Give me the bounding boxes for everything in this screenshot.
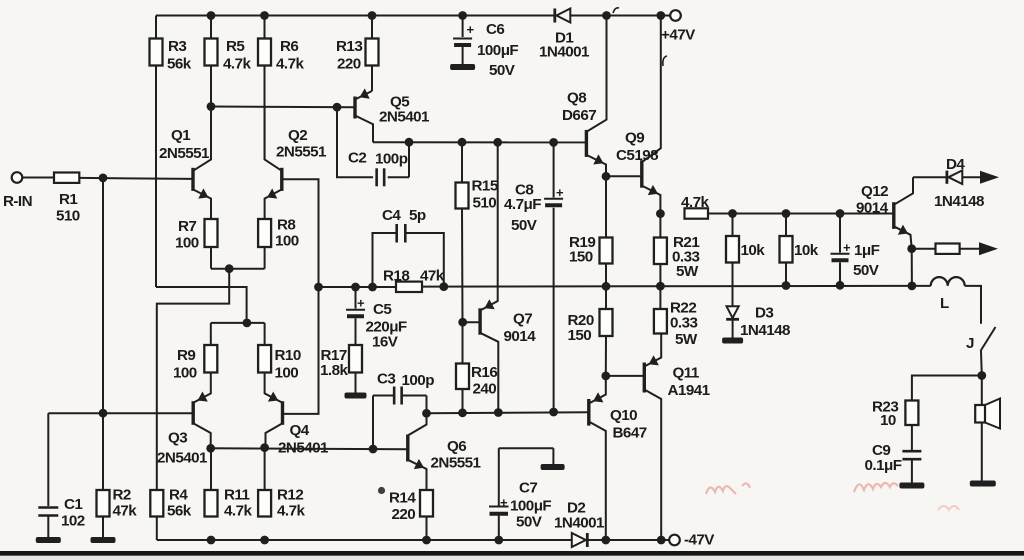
junction Q7 base node [458,318,467,327]
wire Q11 base [606,375,645,377]
transistor Q2 2N5551 [265,107,327,220]
capacitor C9 0.1uF [865,442,922,483]
junction top rail R5 [207,11,216,20]
pink scribble left [706,483,750,494]
wire Q5 collector line to Q8 base [373,141,586,143]
svg-text:1N4148: 1N4148 [740,322,790,339]
wire speaker node to R23 [912,376,982,401]
svg-text:150: 150 [569,249,593,266]
junction C3 right / Q6 collector on driver line [422,409,431,418]
junction Q10 emitter / Q11 base [601,372,610,381]
terminal -47V [669,532,715,549]
arrow out line [979,242,998,255]
wire L to switch [965,286,981,324]
svg-text:4.7μF: 4.7μF [504,196,541,213]
wire R9 R10 top bracket [211,323,265,345]
svg-text:47k: 47k [113,503,138,520]
terminal +47V [661,10,696,43]
junction Q3 collector R11 [206,444,215,453]
resistor R2 [97,413,138,537]
wire switch to speaker node [980,351,983,376]
svg-text:56k: 56k [167,503,192,520]
resistor 4.7k bias feed [681,194,709,219]
wire speaker node down [981,376,983,407]
resistor 10k second [780,214,819,286]
svg-text:Q12: Q12 [861,183,888,200]
junction top rail C6 [458,11,467,20]
svg-text:0.1μF: 0.1μF [865,457,902,474]
stray mark r [613,8,619,13]
ground under C6 [450,64,475,70]
svg-text:Q4: Q4 [290,422,310,439]
resistor R6 [258,16,304,160]
svg-text:Q9: Q9 [625,130,644,147]
junction C2 right on VAS line [405,138,414,147]
svg-text:4.7k: 4.7k [276,56,304,73]
svg-text:R12: R12 [277,487,303,504]
ground for C7 [541,464,565,470]
junction Q9 emitter node [656,209,665,218]
svg-text:50V: 50V [853,262,880,279]
svg-text:100: 100 [175,235,199,252]
scan edge band bottom [0,551,1024,556]
junction speaker node [977,371,986,380]
transistor Q1 2N5551 [159,107,211,220]
wire Q4 base to feedback node [283,287,319,414]
diode D2 1N4001 [554,500,605,548]
resistor R20 [568,286,613,376]
svg-text:C5198: C5198 [616,147,658,164]
junction C8 bottom [549,408,558,417]
svg-text:C7: C7 [519,480,537,497]
transistor Q11 A1941 [644,334,710,541]
wire feedback line right of R18 [422,285,912,288]
junction top rail R6 [260,11,269,20]
svg-text:Q6: Q6 [447,438,466,455]
wire Q7 base [463,321,480,323]
svg-text:Q3: Q3 [168,430,187,447]
resistor R15 [456,142,499,322]
inductor L [931,277,965,312]
capacitor C7 100uF [489,448,553,540]
transistor Q9 C5198 [616,16,661,214]
svg-text:C5: C5 [373,301,392,318]
svg-text:D667: D667 [562,107,596,124]
svg-text:R7: R7 [178,218,196,235]
svg-text:510: 510 [56,208,80,225]
ground under C1 [36,537,61,543]
svg-text:D4: D4 [946,156,965,173]
junction 10k second bottom [782,281,791,290]
junction Q8 emitter node [602,172,611,181]
junction R18 right / C4 right [439,282,448,291]
junction output rail Q12 [908,282,917,291]
svg-text:Q10: Q10 [610,407,637,424]
svg-text:R3: R3 [168,38,186,55]
svg-text:1μF: 1μF [854,242,880,259]
junction R21 bottom on output rail [656,282,665,291]
wire driver line to Q10 base [427,412,589,413]
junction upper pair tail [225,264,234,273]
svg-text:Q11: Q11 [673,365,700,382]
junction bottom rail Q11 collector [657,536,666,545]
svg-text:240: 240 [473,381,497,398]
svg-text:J: J [966,335,974,352]
svg-text:R6: R6 [280,38,298,55]
diode D3 1N4148 [726,305,790,340]
svg-text:R15: R15 [472,178,499,195]
svg-text:100μF: 100μF [477,42,518,59]
resistor R8 [258,217,299,250]
transistor Q7 9014 [480,142,536,412]
svg-text:50V: 50V [489,62,516,79]
resistor R4 [150,487,191,541]
wire input node down to Q3 base line [102,178,104,413]
svg-text:510: 510 [473,195,497,212]
arrow out D4 [980,171,999,184]
svg-text:R-IN: R-IN [3,193,32,210]
wire R3 to lower tail bracket [156,287,247,323]
resistor R17 [320,345,362,393]
svg-text:R14: R14 [389,490,416,507]
resistor R9 [173,345,217,382]
svg-text:4.7k: 4.7k [223,56,251,73]
svg-text:220: 220 [392,506,416,523]
pink scribble right [854,483,898,492]
svg-text:+: + [843,240,851,255]
svg-text:100μF: 100μF [510,498,551,515]
capacitor C6 [453,16,518,80]
svg-text:1N4001: 1N4001 [539,44,590,61]
junction R16 bottom [458,408,467,417]
capacitor C8 4.7uF [504,142,564,412]
svg-text:R16: R16 [471,364,497,381]
svg-text:0.33: 0.33 [670,315,697,332]
pink mark speaker [938,506,959,510]
diode D1 1N4001 [539,9,590,61]
svg-text:2N5401: 2N5401 [157,450,208,467]
svg-text:220: 220 [337,56,361,73]
svg-text:R5: R5 [226,38,245,55]
wire tail to R4 column [157,269,229,490]
svg-text:1N4001: 1N4001 [554,515,605,532]
svg-text:9014: 9014 [504,328,537,345]
wire speaker to ground [981,423,983,481]
svg-text:+: + [556,185,564,200]
junction bottom rail R14 [422,536,431,545]
svg-text:R8: R8 [277,217,295,234]
svg-text:10k: 10k [741,242,766,259]
resistor R12 [258,448,305,520]
ground under speaker [970,481,996,487]
capacitor C3 100p [373,371,434,450]
svg-text:+: + [500,495,508,510]
svg-text:R9: R9 [177,347,195,364]
junction C3 left on Q6 base line [369,445,378,454]
svg-text:R2: R2 [113,487,131,504]
resistor output series [912,244,979,254]
ground under R17 [345,393,367,399]
capacitor 1uF 50V [831,214,880,286]
svg-text:2N5551: 2N5551 [431,455,482,472]
svg-text:100p: 100p [375,151,408,168]
junction top rail Q9 collector [656,11,665,20]
junction lower pair tail [243,319,252,328]
svg-text:4.7k: 4.7k [224,503,252,520]
resistor 10k first [726,214,765,307]
transistor Q12 9014 [856,177,913,249]
svg-text:+: + [357,296,365,311]
diode D4 1N4148 [913,156,984,210]
capacitor C1 102 [38,413,84,537]
capacitor C2 100p [337,107,409,186]
svg-text:100: 100 [275,233,299,250]
svg-text:C6: C6 [486,21,504,38]
svg-text:5W: 5W [675,331,698,348]
resistor R10 [258,345,301,382]
wire Q2 base to feedback node [282,179,319,287]
junction bias line 1uF [836,209,845,218]
resistor R13 [336,16,379,92]
svg-text:C3: C3 [377,371,395,388]
svg-text:50V: 50V [511,217,538,234]
transistor Q5 2N5401 [355,66,430,142]
junction top rail R13 [368,11,377,20]
wire feedback line left of R18 [319,286,397,288]
resistor R21 [654,214,700,287]
svg-text:R13: R13 [336,38,362,55]
svg-text:A1941: A1941 [668,382,711,399]
wire bottom -47V rail left section [157,539,572,541]
svg-text:+: + [467,22,475,37]
svg-text:Q8: Q8 [567,90,586,107]
junction bottom rail Q10 collector [601,536,610,545]
svg-text:B647: B647 [613,425,647,442]
junction input node [99,174,108,183]
wire Q3 base line C1 R2 [48,412,193,414]
svg-text:R1: R1 [59,191,78,208]
svg-text:-47V: -47V [684,532,715,549]
ground under R2 [91,537,116,543]
junction 1uF bottom [836,281,845,290]
svg-text:C2: C2 [348,150,366,167]
wire Q12 emitter to output rail [911,249,913,286]
resistor R11 [205,448,253,519]
svg-text:R11: R11 [224,487,250,504]
svg-text:102: 102 [61,513,85,530]
svg-text:4.7k: 4.7k [277,503,305,520]
svg-text:2N5401: 2N5401 [379,109,430,126]
svg-text:R18: R18 [383,268,409,285]
transistor Q10 B647 [589,376,647,540]
junction Q2/Q4 bases on feedback line [314,283,323,292]
transistor Q3 2N5401 [157,373,211,467]
junction Q3 base node [99,409,108,418]
svg-text:10k: 10k [794,242,819,259]
svg-text:9014: 9014 [856,200,889,217]
resistor R1 [54,173,80,225]
wire output rail to L [912,285,931,287]
svg-text:C4: C4 [382,207,401,224]
junction R19 bottom on output rail [602,282,611,291]
junction R15 top [458,138,467,147]
resistor R23 [872,399,918,451]
junction R18 left / C4 left [368,283,377,292]
svg-text:R10: R10 [275,347,301,364]
svg-text:D3: D3 [755,305,773,322]
junction C5 top [351,283,360,292]
svg-text:Q1: Q1 [171,127,191,144]
svg-text:Q2: Q2 [288,127,307,144]
svg-text:100p: 100p [402,372,435,389]
svg-text:C1: C1 [64,496,83,513]
svg-text:2N5551: 2N5551 [159,145,210,162]
svg-text:Q7: Q7 [513,311,532,328]
resistor R19 [569,176,613,286]
junction Q7 emitter bottom [494,408,503,417]
svg-text:R4: R4 [169,487,188,504]
junction Q1 collector / R5 / Q5 base line [207,102,216,111]
switch J blade [966,327,996,352]
junction Q12 emitter tap [907,244,916,253]
svg-text:1.8k: 1.8k [320,362,348,379]
svg-text:150: 150 [568,327,592,344]
capacitor C4 5p [373,207,444,287]
mark bullet near R14 [378,487,385,494]
wire Q8 emitter to Q9 base [606,175,642,177]
wire top +47V rail left section [156,15,554,17]
wire R7 R8 tail bracket [211,247,265,269]
svg-text:1N4148: 1N4148 [934,193,984,210]
wire R1 to Q1 base [79,178,193,179]
capacitor C5 220uF [346,287,407,350]
stray mark f [663,56,667,66]
junction bias line 10k first [728,209,737,218]
svg-text:4.7k: 4.7k [681,194,709,211]
resistor R16 [456,322,497,412]
svg-text:56k: 56k [167,56,192,73]
svg-text:5W: 5W [676,263,699,280]
ground under D3 [722,338,743,344]
junction bias line 10k second [782,209,791,218]
svg-text:16V: 16V [372,333,399,350]
wire Q5 base line [211,106,355,109]
svg-text:L: L [940,295,949,312]
junction bottom rail R12 [260,536,269,545]
junction bottom rail C7 [494,536,503,545]
resistor R7 [175,218,218,252]
resistor R3 [150,16,192,73]
resistor R18 47k [383,268,445,293]
wire bottom rail right section after D2 [589,539,669,541]
junction Q4 collector R12 [260,443,269,452]
resistor R5 [205,16,252,107]
wire R3 bottom to lower pair tail [155,66,157,288]
svg-text:100: 100 [173,365,197,382]
junction Q5 base / C2 left [333,103,342,112]
junction top rail Q8 collector [602,11,611,20]
resistor R14 [389,490,433,541]
svg-text:+47V: +47V [661,27,696,44]
junction Q7 collector top [493,138,502,147]
wire top rail right section after D1 [570,15,670,17]
wire Q3/Q4 collectors line to Q6 base [211,447,408,450]
ground under C9 [899,483,924,489]
svg-text:100: 100 [275,365,299,382]
speaker [975,399,1000,429]
svg-text:50V: 50V [516,514,543,531]
svg-text:5p: 5p [409,207,426,224]
junction C8 top [549,138,558,147]
transistor Q8 D667 [562,16,607,177]
svg-text:47k: 47k [420,268,445,285]
transistor Q4 2N5401 [265,373,329,457]
svg-text:2N5551: 2N5551 [276,144,327,161]
junction bottom rail R11 [207,536,216,545]
terminal R-IN [3,172,32,210]
svg-text:10: 10 [880,412,896,429]
transistor Q6 2N5551 [408,413,482,490]
wire bias line to Q12 base [708,213,894,215]
resistor R22 [654,286,698,348]
wire input stub [22,177,54,179]
